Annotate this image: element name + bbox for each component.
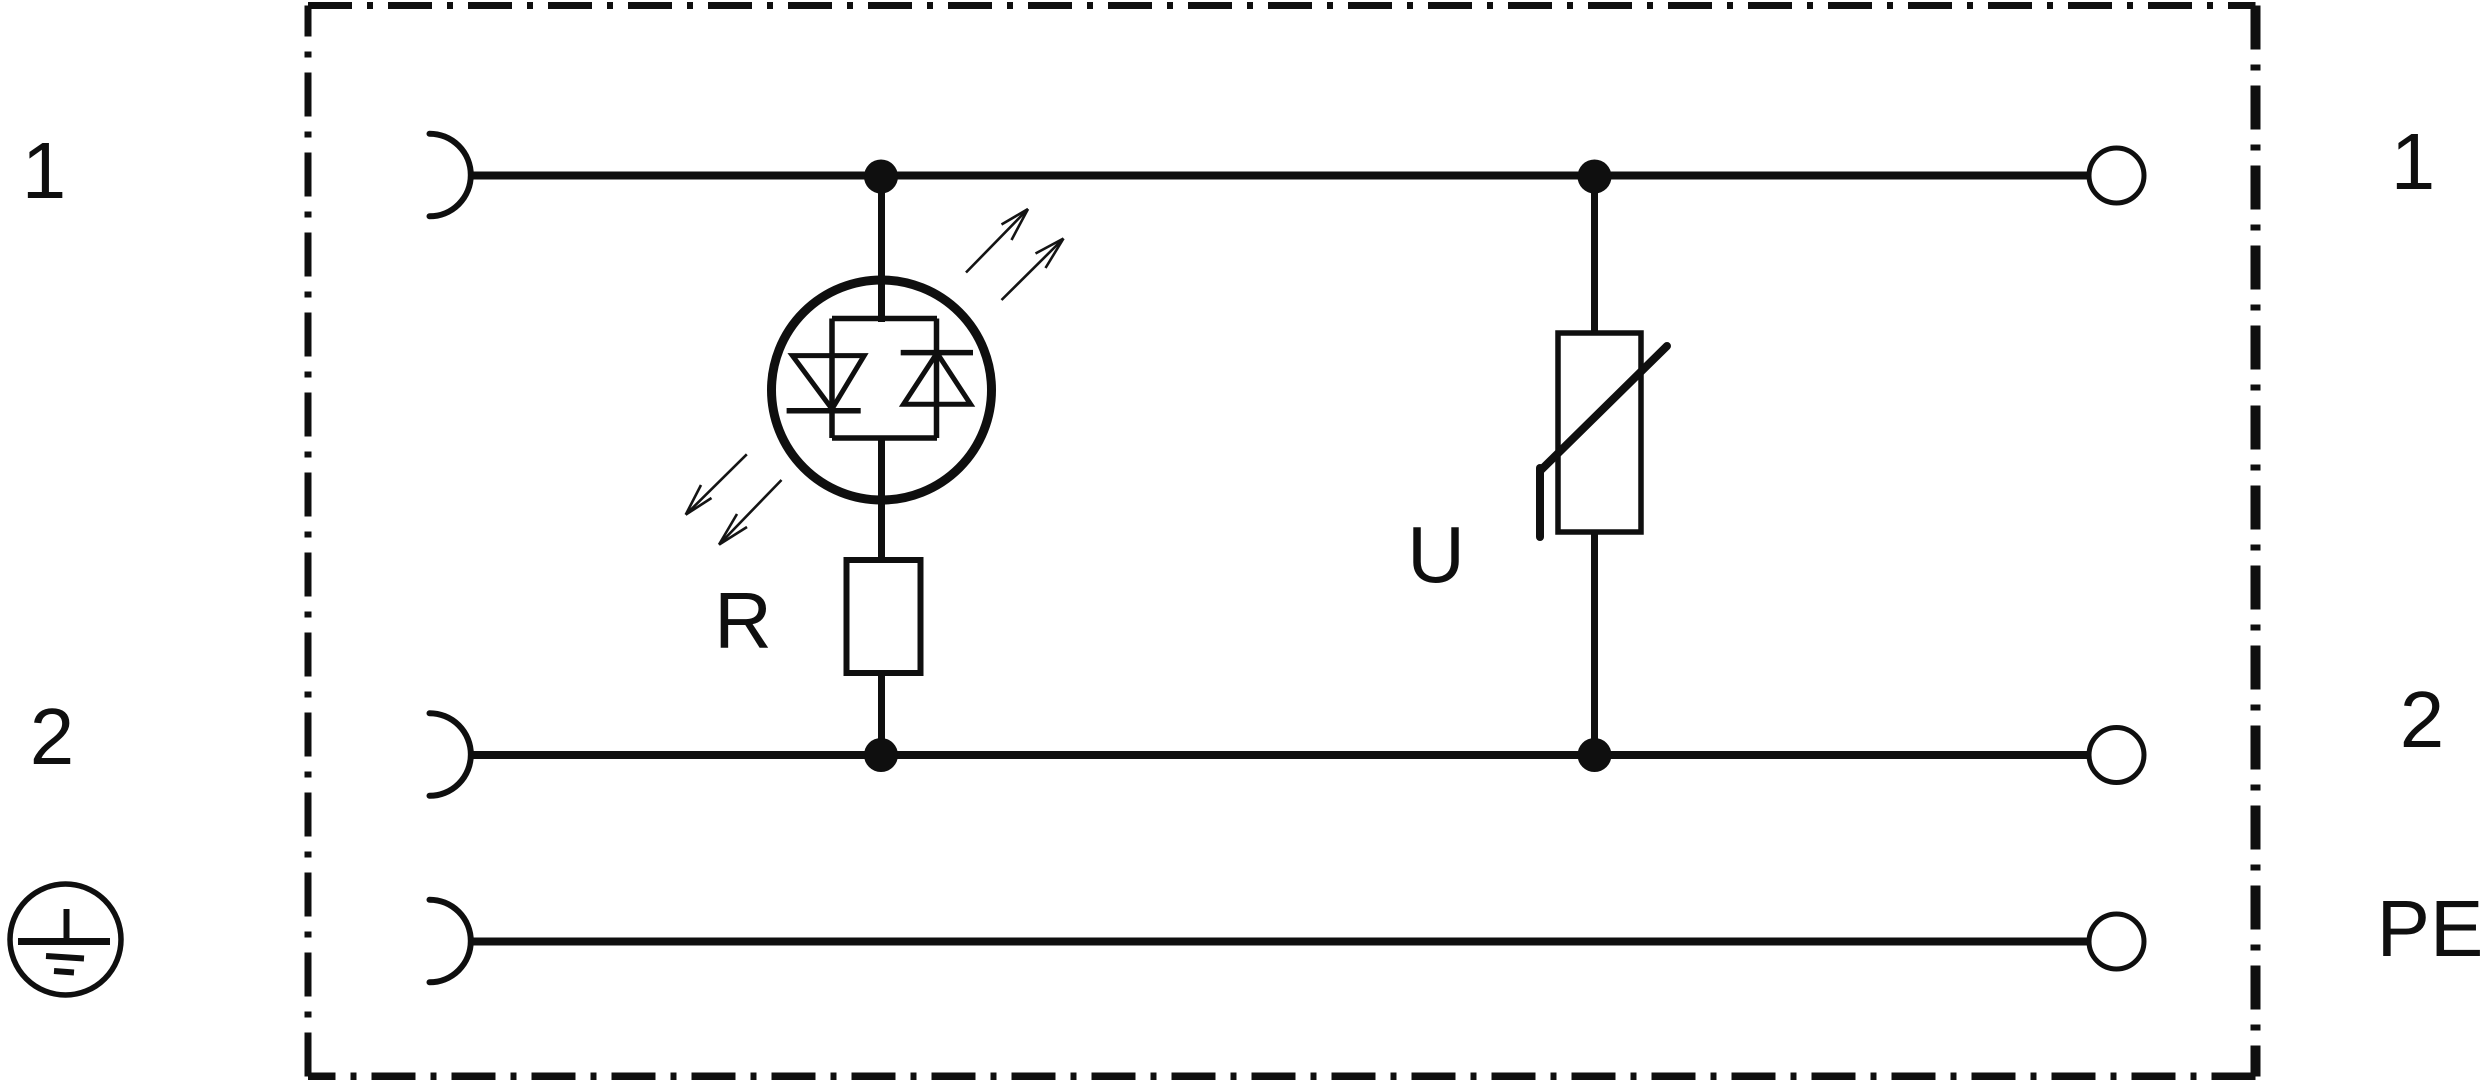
wire: resistor to net 2 <box>878 676 885 755</box>
light emission arrows (bottom left) <box>686 454 782 544</box>
svg-text:2: 2 <box>2400 675 2445 764</box>
svg-text:R: R <box>714 576 772 665</box>
terminal 1 (right, open circle) <box>2089 148 2144 203</box>
wire net 1 (top horizontal) <box>471 172 2090 180</box>
wire: net 1 down to varistor <box>1591 176 1598 334</box>
terminal 2 (right, open circle) <box>2089 728 2144 783</box>
wire net PE (bottom horizontal) <box>471 938 2090 946</box>
light emission arrows (top right) <box>966 209 1064 300</box>
junction: net 2 / resistor branch <box>864 738 898 772</box>
LED (bidirectional, circle envelope) <box>772 280 992 500</box>
socket contact PE (arc) <box>430 900 471 983</box>
protective earth symbol <box>10 884 121 995</box>
socket contact pin 2 (arc) <box>430 713 471 796</box>
svg-text:1: 1 <box>22 126 67 215</box>
svg-text:1: 1 <box>2391 117 2436 206</box>
junction: net 2 / varistor branch <box>1578 738 1612 772</box>
svg-text:2: 2 <box>30 692 75 781</box>
terminal PE (right, open circle) <box>2089 914 2144 969</box>
enclosure border (dash-dot box) <box>308 6 2256 1077</box>
wire net 2 (middle horizontal) <box>471 751 2090 759</box>
resistor R (body) <box>847 560 921 673</box>
varistor U (body) <box>1540 333 1667 537</box>
svg-text:PE: PE <box>2377 884 2480 973</box>
wire: LED to resistor <box>878 438 885 558</box>
junction: net 1 / LED branch <box>864 160 898 194</box>
wire: net 1 down to LED <box>878 176 885 322</box>
socket contact pin 1 (arc) <box>430 134 471 217</box>
wire: varistor to net 2 <box>1591 532 1598 755</box>
junction: net 1 / varistor branch <box>1578 160 1612 194</box>
svg-text:U: U <box>1407 510 1465 599</box>
